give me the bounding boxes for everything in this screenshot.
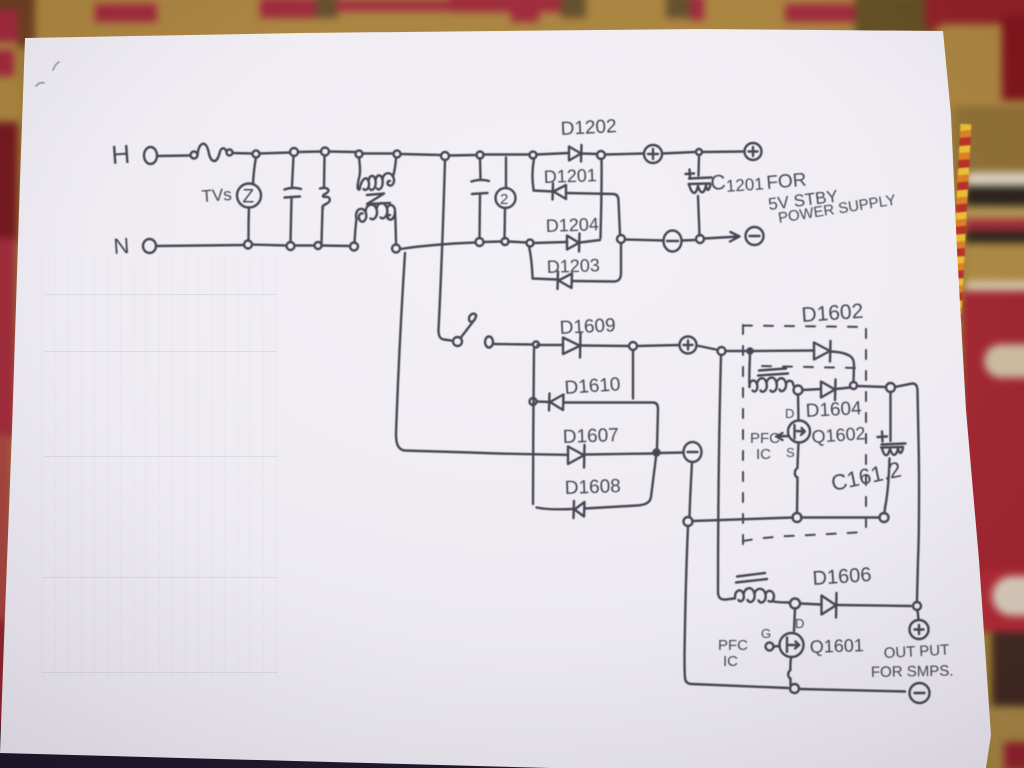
capacitor C-a (X cap) bbox=[285, 156, 302, 242]
svg-text:Z: Z bbox=[243, 187, 255, 208]
node C-c bottom bbox=[476, 238, 484, 246]
diode D1608 bbox=[574, 501, 585, 518]
node Q1601 source bbox=[790, 684, 799, 693]
power symbol plus1 bbox=[644, 145, 662, 163]
label PFC IC (lower) bbox=[718, 637, 748, 670]
wire top rail seg5 bbox=[401, 154, 442, 155]
diode D1604 bbox=[821, 380, 836, 401]
svg-text:D1609: D1609 bbox=[559, 315, 616, 339]
wire left vertical to lower choke bbox=[718, 355, 734, 600]
svg-text:IC: IC bbox=[723, 653, 738, 670]
wire N rail seg7 bbox=[509, 242, 527, 243]
node C-c top bbox=[477, 152, 484, 159]
svg-text:D1204: D1204 bbox=[545, 214, 599, 236]
diode D1602 bbox=[814, 341, 831, 362]
svg-text:D1203: D1203 bbox=[546, 255, 600, 277]
inductor choke lower winding bbox=[355, 203, 397, 243]
diode D1204 bbox=[567, 234, 580, 252]
svg-text:FOR SMPS.: FOR SMPS. bbox=[871, 663, 954, 681]
power symbol minus1 bbox=[664, 231, 682, 252]
transistor Q1602 bbox=[788, 395, 810, 514]
wire N rail seg4 bbox=[322, 244, 351, 247]
capacitor C1612 bbox=[878, 392, 906, 514]
wire D1608 anode lead bbox=[537, 508, 574, 510]
power symbol plus3 bbox=[680, 337, 697, 354]
node Q1601 gate bbox=[766, 643, 774, 651]
svg-text:D1608: D1608 bbox=[564, 476, 621, 499]
wire plus rail seg1 bbox=[605, 154, 644, 155]
switch throw bbox=[485, 337, 493, 348]
svg-text:S: S bbox=[786, 445, 795, 460]
switch arm with arrow bbox=[461, 314, 477, 338]
wire Q1602 gate arrow bbox=[776, 433, 788, 440]
svg-text:D1606: D1606 bbox=[812, 564, 872, 590]
wire N rail seg6 bbox=[484, 240, 502, 243]
node C-a top bbox=[290, 148, 298, 156]
node TVS2 bottom bbox=[502, 238, 509, 245]
node C-a bottom bbox=[287, 242, 295, 250]
node choke top-left bbox=[356, 151, 363, 158]
wire long drop from top rail to switch bbox=[439, 160, 452, 341]
wire minus arrow bbox=[704, 232, 740, 242]
wire H to fuse bbox=[157, 154, 190, 157]
node C1201 plus bbox=[696, 149, 702, 155]
wire D1203 anode stub bbox=[529, 247, 557, 280]
node PFC loop left bbox=[718, 347, 726, 355]
wire plus rail seg3 bbox=[702, 150, 744, 153]
node fuse left bbox=[191, 152, 198, 159]
wire minus3 down to source rail and bottom corner bbox=[685, 463, 789, 689]
svg-text:TVs: TVs bbox=[201, 185, 232, 206]
svg-text:D: D bbox=[795, 616, 804, 631]
node D1202 anode bbox=[530, 152, 537, 159]
node D1602/D1604 join bbox=[850, 382, 857, 389]
node choke/Q1602 drain bbox=[794, 386, 803, 395]
wire node to choke tap bbox=[726, 350, 747, 352]
svg-text:D: D bbox=[785, 406, 794, 421]
svg-text:Q1602: Q1602 bbox=[811, 423, 866, 447]
node Q1601 drain / choke out bbox=[790, 599, 800, 609]
svg-text:2: 2 bbox=[500, 191, 508, 208]
wire D1201 anode stub bbox=[532, 159, 552, 192]
svg-text:D1602: D1602 bbox=[801, 300, 864, 327]
wire D1604 anode lead bbox=[803, 389, 822, 390]
wire N rail seg5 rising bbox=[401, 243, 476, 250]
label PFC IC (upper) bbox=[750, 430, 780, 463]
node Q1602 source rail bbox=[793, 513, 802, 522]
svg-text:PFC: PFC bbox=[750, 430, 780, 447]
wire D1202 anode lead bbox=[537, 153, 570, 155]
node TVS bottom bbox=[244, 241, 252, 249]
wire top rail over choke bbox=[363, 152, 394, 154]
dashed box D1602 module bbox=[743, 325, 866, 544]
wire D1610 anode lead bbox=[537, 400, 550, 403]
wire source rail left bbox=[693, 518, 794, 522]
diode D1609 bbox=[563, 334, 581, 358]
wire D1204 anode lead bbox=[534, 242, 568, 243]
node C1612 top bbox=[886, 383, 895, 392]
wire switch to D1609 node bbox=[494, 343, 533, 346]
inductor boost choke (upper) bbox=[749, 369, 793, 392]
node C-b top bbox=[321, 148, 329, 156]
svg-text:OUT PUT: OUT PUT bbox=[883, 642, 949, 662]
power symbol plus4 (output) bbox=[910, 620, 929, 639]
wire N rail seg1 bbox=[157, 245, 244, 246]
svg-text:D1604: D1604 bbox=[805, 398, 862, 422]
node output plus bbox=[913, 602, 921, 610]
node TVS top bbox=[253, 151, 260, 158]
svg-text:PFC: PFC bbox=[718, 637, 748, 654]
node D1609 anode bbox=[533, 342, 539, 348]
switch SW pole bbox=[453, 337, 462, 346]
wire gate stub bbox=[774, 645, 780, 648]
svg-text:C161.2: C161.2 bbox=[829, 457, 904, 496]
wire D1606 anode lead bbox=[800, 604, 822, 605]
wire top rail seg4 bbox=[329, 150, 355, 153]
diode D1610 bbox=[549, 394, 564, 411]
wire join to C1612 node bbox=[857, 386, 886, 387]
wire tap down to boost choke bbox=[748, 355, 751, 387]
node plus rail bbox=[597, 151, 605, 159]
wire N rail seg2 bbox=[252, 245, 287, 246]
power symbol minus4 (output) bbox=[910, 683, 930, 703]
wire D1610 to corner down bbox=[564, 403, 659, 449]
wire stub to plus4 bbox=[918, 610, 919, 620]
wire D1609-out down to D1610 line bbox=[632, 350, 634, 399]
svg-text:Q1601: Q1601 bbox=[809, 635, 864, 657]
svg-text:D1202: D1202 bbox=[560, 116, 617, 140]
wire top rail seg2 bbox=[260, 153, 291, 154]
wire top rail seg6 bbox=[449, 154, 476, 157]
node D1610 anode bbox=[530, 398, 537, 405]
wire minus node to circle minus3 bbox=[660, 451, 684, 454]
inductor PFC main choke (lower) bbox=[735, 573, 790, 603]
wire D1610 vertical from D1609 node bbox=[533, 349, 534, 504]
wire to D1602 anode bbox=[753, 349, 814, 352]
inductor choke upper winding bbox=[358, 158, 396, 190]
capacitor C1201 bbox=[686, 156, 712, 236]
wire long drop from N rail to D1607 row bbox=[396, 253, 567, 455]
wire source rail right bbox=[801, 516, 880, 518]
svg-text:G: G bbox=[761, 626, 771, 641]
wire fuse to TVS node bbox=[233, 152, 253, 155]
node C-b bottom bbox=[315, 242, 322, 249]
wire bottom rail right seg bbox=[800, 689, 905, 692]
node minus rail bbox=[617, 235, 625, 243]
node fuse right bbox=[227, 150, 233, 156]
svg-text:D1610: D1610 bbox=[564, 374, 621, 399]
varistor TVS2 (circled 2) bbox=[496, 158, 516, 239]
wire right riser down to D1606 bbox=[895, 384, 919, 602]
diode D1606 bbox=[822, 593, 837, 618]
wire D1608 to corner up bbox=[585, 457, 656, 509]
wire D1202 cathode lead bbox=[582, 152, 597, 155]
wire D1609 anode lead bbox=[538, 344, 564, 346]
wire minus rail seg1 bbox=[625, 240, 664, 241]
terminal N bbox=[143, 239, 156, 253]
wire top rail seg3 bbox=[298, 150, 321, 153]
wire D1602 cathode corner bbox=[831, 352, 854, 382]
wire D1203 to minus node bbox=[572, 244, 621, 282]
fuse squiggle bbox=[198, 144, 227, 161]
svg-text:H: H bbox=[110, 139, 131, 170]
node choke bottom-right bbox=[392, 245, 400, 253]
diode D1607 bbox=[568, 445, 585, 468]
wire minus rail seg2 bbox=[682, 239, 695, 242]
wire D1604 cathode lead bbox=[836, 388, 850, 390]
svg-text:N: N bbox=[113, 233, 131, 259]
choke core Z mark bbox=[367, 194, 390, 205]
node branch-down A bbox=[441, 152, 449, 160]
wire D1201 to minus corner bbox=[566, 193, 620, 234]
svg-text:D1201: D1201 bbox=[543, 165, 597, 187]
node C1612 bottom bbox=[880, 513, 889, 522]
wire D1606 cathode lead bbox=[837, 605, 911, 606]
diode D1202 bbox=[569, 145, 582, 162]
transistor Q1601 bbox=[780, 609, 804, 685]
node PFC minus bbox=[654, 450, 660, 456]
capacitor C-b (curly) bbox=[320, 156, 330, 244]
wire D1204 cathode lead bbox=[580, 240, 600, 243]
wire plus3 to box node bbox=[697, 346, 717, 350]
capacitor C-c bbox=[472, 159, 490, 239]
wire plus rail seg2 bbox=[662, 152, 695, 154]
svg-text:C1201: C1201 bbox=[710, 168, 765, 197]
wire top rail seg7 bbox=[484, 153, 530, 155]
node choke top-right bbox=[394, 151, 401, 158]
varistor TVS1 (circled Z) bbox=[237, 158, 261, 241]
wire to plus3 bbox=[637, 345, 680, 346]
power symbol minus2 bbox=[746, 227, 764, 245]
node choke tap bbox=[747, 348, 752, 353]
wire D1607 cathode lead bbox=[585, 454, 653, 455]
wire D1609 cathode lead bbox=[581, 344, 629, 347]
node choke bottom-left bbox=[350, 243, 358, 251]
svg-text:IC: IC bbox=[756, 446, 771, 463]
terminal H bbox=[144, 147, 157, 164]
node source rail left end bbox=[684, 517, 693, 526]
stray pen marks top-left bbox=[36, 62, 59, 86]
power symbol plus2 bbox=[745, 143, 762, 160]
node D1204 anode bbox=[527, 240, 534, 247]
diode D1201 bbox=[553, 184, 567, 200]
power symbol minus3 bbox=[684, 442, 702, 462]
node C1201 minus bbox=[696, 235, 704, 243]
diode D1203 bbox=[558, 272, 573, 290]
svg-text:D1607: D1607 bbox=[562, 425, 619, 448]
wire plus node to D1204 cathode bbox=[601, 159, 602, 238]
wire N rail seg3 bbox=[295, 244, 315, 246]
node D1609 out bbox=[629, 342, 637, 350]
